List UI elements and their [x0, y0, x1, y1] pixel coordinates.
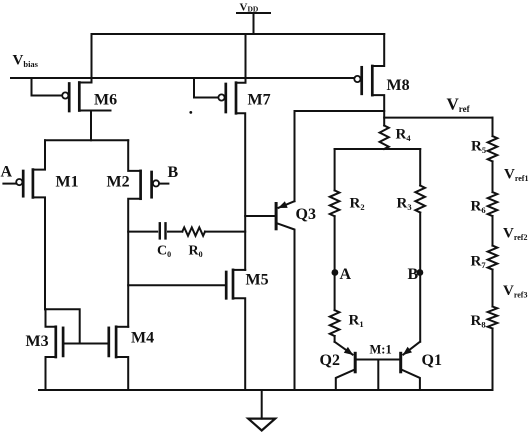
svg-text:R5: R5: [471, 139, 486, 156]
svg-text:M4: M4: [131, 330, 154, 347]
svg-text:R2: R2: [350, 196, 365, 213]
svg-text:VDD: VDD: [240, 2, 259, 14]
svg-text:Vbias: Vbias: [13, 53, 39, 70]
svg-text:M8: M8: [387, 77, 410, 94]
svg-text:M7: M7: [248, 92, 271, 109]
svg-text:Vref2: Vref2: [503, 226, 527, 243]
svg-text:B: B: [408, 266, 419, 283]
svg-text:M:1: M:1: [370, 343, 392, 357]
svg-text:R8: R8: [471, 313, 486, 330]
svg-text:Vref: Vref: [447, 95, 471, 115]
svg-text:A: A: [1, 164, 13, 181]
svg-text:R7: R7: [471, 254, 487, 271]
svg-text:B: B: [168, 164, 179, 181]
svg-text:M3: M3: [26, 333, 49, 350]
svg-text:Q2: Q2: [320, 352, 340, 369]
svg-text:Vref3: Vref3: [503, 283, 527, 300]
svg-text:A: A: [340, 266, 352, 283]
svg-text:M5: M5: [246, 272, 269, 289]
svg-text:R6: R6: [471, 199, 486, 216]
svg-text:C0: C0: [157, 244, 171, 260]
svg-text:M6: M6: [94, 92, 117, 109]
svg-text:R1: R1: [349, 313, 364, 330]
svg-text:M1: M1: [56, 174, 79, 191]
svg-text:Vref1: Vref1: [504, 167, 528, 184]
svg-text:M2: M2: [107, 174, 130, 191]
svg-text:Q1: Q1: [422, 352, 442, 369]
svg-text:R4: R4: [396, 127, 412, 144]
svg-text:Q3: Q3: [296, 206, 316, 223]
svg-text:R3: R3: [397, 196, 412, 213]
svg-text:R0: R0: [189, 244, 203, 260]
